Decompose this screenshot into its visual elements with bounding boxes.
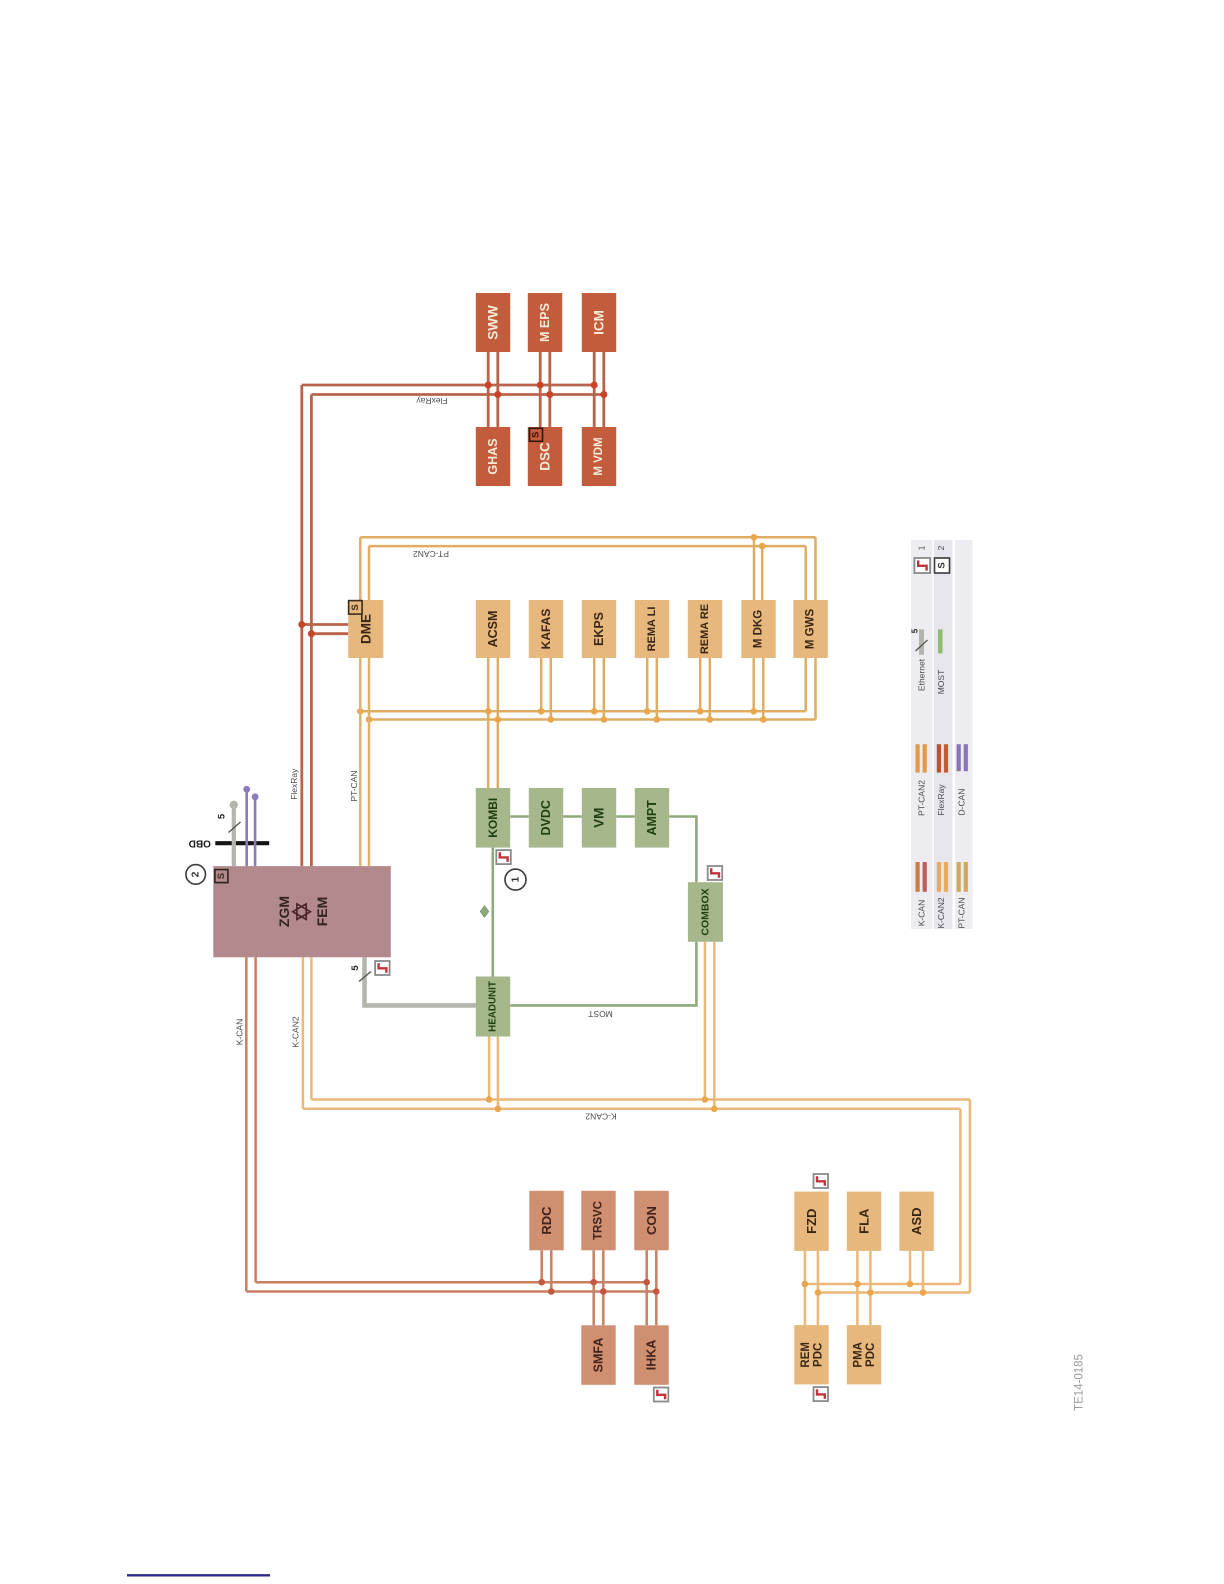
ECU box HEADUNIT <box>476 977 510 1037</box>
junction PT-CAN2 junction REMA LI 1 <box>644 708 651 715</box>
svg-text:KAFAS: KAFAS <box>539 609 553 650</box>
svg-text:1: 1 <box>510 877 522 883</box>
junction PT-CAN2 junction ACSM 2 <box>495 716 502 723</box>
svg-text:VM: VM <box>592 808 607 828</box>
ECU box M GWS <box>793 600 827 658</box>
legend PT-CAN2 sample bars <box>916 744 920 772</box>
OBD diagnostic connector bar <box>215 841 269 845</box>
wire FlexRay bus wire 2 (lower) <box>311 393 603 396</box>
wire MOST VM-AMPT link <box>616 815 635 818</box>
wire ACSM through-wire to KOMBI 1 <box>487 658 490 788</box>
MOST direction arrow <box>480 906 488 917</box>
svg-text:AMPT: AMPT <box>645 800 659 836</box>
wire K-CAN trunk vertical 2 <box>254 957 257 1282</box>
junction PT-CAN2 junction M DKG 1 <box>750 708 757 715</box>
wire K-CAN2 FZD drop 2 <box>817 1251 820 1325</box>
wire K-CAN2 right riser outer <box>969 1100 972 1293</box>
wire K-CAN2 bus wire upper <box>311 1098 970 1101</box>
svg-text:M GWS: M GWS <box>805 609 817 650</box>
svg-text:PT-CAN: PT-CAN <box>957 897 967 928</box>
wire PT-CAN2 EKPS bottom drop 2 <box>603 658 606 720</box>
junction K-CAN2 junction COMBOX 2 <box>711 1106 718 1113</box>
junction K-CAN2 junction ASD 1 <box>907 1281 914 1288</box>
wire HEADUNIT K-CAN2 drop 1 <box>488 1037 491 1100</box>
svg-text:TE14-0185: TE14-0185 <box>1074 1354 1086 1411</box>
wire PT-CAN2 bottom bus wire 1 <box>360 710 805 713</box>
optical-fibre icon at KOMBI bottom <box>496 850 511 864</box>
junction PT-CAN2 junction ACSM 1 <box>485 708 492 715</box>
junction FlexRay junction upper x=488 <box>485 382 492 389</box>
svg-text:PT-CAN2: PT-CAN2 <box>413 549 449 559</box>
wire PT-CAN2 REMA RE bottom drop 1 <box>699 658 702 711</box>
wire FlexRay trunk left inner vertical <box>310 395 313 867</box>
svg-text:K-CAN: K-CAN <box>917 900 927 926</box>
svg-text:RDC: RDC <box>539 1206 554 1235</box>
wire FlexRay trunk left outer vertical <box>300 385 303 866</box>
legend K-CAN2 sample bars <box>937 862 941 892</box>
wire FlexRay drop left x=540 <box>539 352 542 427</box>
wire PT-CAN2 M DKG top drop 1 <box>753 537 756 600</box>
D-CAN stub wire 1 <box>245 790 248 866</box>
optical-fibre icon at IHKA bottom <box>654 1388 669 1402</box>
svg-text:ZGM: ZGM <box>276 896 292 927</box>
wire PT-CAN2 bottom bus wire 2 <box>369 718 816 721</box>
svg-text:GHAS: GHAS <box>486 438 500 474</box>
wire MOST KOMBI-DVDC link <box>510 815 529 818</box>
circled number 2 at ZGM <box>186 865 206 885</box>
wire PT-CAN2 left corner vertical 1 (into DME) <box>359 537 362 600</box>
ECU box REM PDC <box>794 1325 828 1384</box>
svg-text:FlexRay: FlexRay <box>416 396 448 406</box>
wire FlexRay drop right x=498 <box>496 352 499 427</box>
svg-text:1: 1 <box>917 545 927 550</box>
wire K-CAN2 FLA drop 2 <box>869 1251 872 1325</box>
svg-text:MOST: MOST <box>936 670 946 695</box>
svg-text:REMPDC: REMPDC <box>800 1342 825 1368</box>
wire MOST KOMBI-HEADUNIT link <box>491 848 494 977</box>
wire PT-CAN2 REMA LI bottom drop 2 <box>656 658 659 720</box>
svg-text:COMBOX: COMBOX <box>699 888 711 935</box>
svg-text:D-CAN: D-CAN <box>957 789 967 816</box>
junction K-CAN junction CON 2 <box>653 1288 660 1295</box>
svg-text:SWW: SWW <box>486 305 501 340</box>
svg-text:IHKA: IHKA <box>645 1340 659 1371</box>
junction K-CAN2 junction COMBOX 1 <box>702 1096 709 1103</box>
wire ACSM through-wire to KOMBI 2 <box>497 658 500 788</box>
junction K-CAN2 junction ASD 2 <box>920 1289 927 1296</box>
junction PT-CAN2 junction KAFAS 1 <box>538 708 545 715</box>
svg-text:K-CAN: K-CAN <box>235 1019 245 1045</box>
ECU box CON <box>634 1191 668 1251</box>
wire PT-CAN DME-to-ZGM wire 2 <box>368 658 371 866</box>
ECU box DVDC <box>529 788 563 848</box>
ECU box COMBOX <box>688 882 723 942</box>
junction FlexRay junction upper x=540 <box>537 382 544 389</box>
svg-text:FLA: FLA <box>857 1208 872 1234</box>
wire PT-CAN2 left corner vertical 2 (into DME) <box>368 546 371 600</box>
wire PT-CAN2 right corner vertical 2 (into M GWS) <box>804 546 807 600</box>
S-gateway icon legend S <box>935 558 950 573</box>
junction FlexRay junction at DME stub 1 <box>298 621 305 628</box>
svg-text:2: 2 <box>190 871 202 877</box>
junction PT-CAN2 junction REMA RE 1 <box>697 708 704 715</box>
ECU box ASD <box>899 1192 933 1251</box>
junction K-CAN2 junction FLA 1 <box>854 1281 861 1288</box>
ECU box FZD <box>794 1192 828 1251</box>
ECU box EKPS <box>582 600 616 658</box>
wire K-CAN2 trunk vertical 1 (from ZGM) <box>302 957 305 1109</box>
junction K-CAN2 junction FZD 1 <box>802 1281 809 1288</box>
svg-text:PMAPDC: PMAPDC <box>853 1342 878 1368</box>
svg-text:5: 5 <box>350 965 361 971</box>
junction FlexRay junction upper x=594 <box>591 382 598 389</box>
wire FlexRay stub to DME wire 1 <box>302 623 349 626</box>
junction PT-CAN2 tee into PT-CAN wire 2 <box>366 716 373 723</box>
wire K-CAN2 lower bus wire upper <box>805 1283 961 1286</box>
legend PT-CAN sample bars <box>957 862 961 892</box>
wire PT-CAN2 right corner vertical 1 (into M GWS) <box>814 537 817 600</box>
junction K-CAN junction RDC 1 <box>538 1279 545 1286</box>
junction K-CAN junction RDC 2 <box>548 1288 555 1295</box>
wire COMBOX K-CAN2 drop 2 <box>713 942 716 1109</box>
ECU box SWW <box>476 293 510 352</box>
wire K-CAN2 ASD drop 1 <box>909 1251 912 1284</box>
svg-text:DVDC: DVDC <box>539 800 553 835</box>
svg-text:FZD: FZD <box>804 1209 819 1234</box>
ECU box M EPS <box>528 293 562 352</box>
wire K-CAN RDC drop 2 <box>550 1250 553 1291</box>
wire PT-CAN2 EKPS bottom drop 1 <box>593 658 596 711</box>
svg-text:M EPS: M EPS <box>538 303 552 342</box>
svg-text:REMA LI: REMA LI <box>646 607 658 652</box>
wire MOST DVDC-VM link <box>563 815 582 818</box>
svg-text:DSC: DSC <box>538 442 553 471</box>
svg-text:Ethernet: Ethernet <box>917 658 927 691</box>
wire PT-CAN2 KAFAS bottom drop 1 <box>540 658 543 711</box>
legend D-CAN sample bars <box>957 744 961 771</box>
wire FlexRay stub to DME wire 2 <box>311 632 348 635</box>
svg-text:S: S <box>350 604 361 610</box>
legend background strip 1 <box>911 540 933 929</box>
count slash on Ethernet ZGM-HEADUNIT <box>359 972 371 982</box>
ECU box SMFA <box>581 1325 615 1385</box>
svg-text:FlexRay: FlexRay <box>936 784 946 816</box>
legend Ethernet sample <box>919 629 924 655</box>
svg-text:K-CAN2: K-CAN2 <box>585 1112 616 1122</box>
junction K-CAN2 junction FLA 2 <box>867 1289 874 1296</box>
wire K-CAN2 FZD drop 1 <box>804 1251 807 1325</box>
legend MOST sample <box>938 629 943 653</box>
ECU box ZGM/FEM central gateway <box>213 866 390 957</box>
junction K-CAN2 junction HEADUNIT 2 <box>495 1106 502 1113</box>
junction K-CAN junction TRSVC 1 <box>590 1279 597 1286</box>
svg-text:ICM: ICM <box>592 310 607 335</box>
svg-text:ASD: ASD <box>909 1207 924 1234</box>
legend background strip 3 <box>955 540 973 929</box>
count slash on Ethernet stub <box>229 822 241 833</box>
ECU box FLA <box>847 1192 881 1251</box>
legend FlexRay sample bars <box>937 744 941 772</box>
wire K-CAN2 ASD drop 2 <box>922 1251 925 1293</box>
wire PT-CAN2 M GWS bottom corner 2 <box>814 658 817 720</box>
S-gateway icon on DSC <box>530 428 543 441</box>
wire K-CAN RDC drop 1 <box>540 1250 543 1282</box>
wire MOST AMPT-COMBOX link <box>669 817 696 883</box>
ECU box ICM <box>582 293 616 352</box>
wire K-CAN TRSVC drop 2 <box>602 1250 605 1325</box>
junction FlexRay junction lower x=550 <box>546 391 553 398</box>
svg-text:S: S <box>937 562 948 568</box>
wire K-CAN TRSVC drop 1 <box>592 1250 595 1325</box>
junction PT-CAN2 junction M DKG top 2 <box>759 543 766 550</box>
svg-text:KOMBI: KOMBI <box>486 798 500 838</box>
wire K-CAN CON drop 1 <box>645 1250 648 1325</box>
svg-text:FEM: FEM <box>314 897 330 927</box>
wire FlexRay drop right x=550 <box>548 352 551 427</box>
wire FlexRay drop right x=604 <box>602 352 605 427</box>
wire PT-CAN2 REMA LI bottom drop 1 <box>646 658 649 711</box>
ECU box TRSVC <box>581 1191 615 1251</box>
optical-fibre icon at REM PDC bottom <box>814 1387 829 1401</box>
svg-text:M VDM: M VDM <box>593 437 605 475</box>
junction FlexRay junction at DME stub 2 <box>308 630 315 637</box>
svg-text:OBD: OBD <box>189 838 211 849</box>
wire FlexRay drop left x=488 <box>487 352 490 427</box>
junction PT-CAN2 junction EKPS 2 <box>601 716 608 723</box>
svg-text:DME: DME <box>358 614 373 644</box>
svg-text:HEADUNIT: HEADUNIT <box>488 981 499 1032</box>
wire PT-CAN2 top bus wire 2 <box>369 545 806 548</box>
junction PT-CAN2 junction KAFAS 2 <box>548 716 555 723</box>
ECU box DSC <box>528 427 562 486</box>
wire MOST COMBOX-HEADUNIT return <box>510 942 696 1006</box>
svg-text:S: S <box>531 432 542 438</box>
wire PT-CAN2 M DKG bottom drop 1 <box>752 658 755 711</box>
wire K-CAN trunk vertical 1 <box>245 957 248 1291</box>
wire PT-CAN DME-to-ZGM wire 1 <box>359 658 362 866</box>
wire COMBOX K-CAN2 drop 1 <box>704 942 707 1100</box>
wire K-CAN CON drop 2 <box>655 1250 658 1325</box>
Ethernet wire ZGM to HEADUNIT <box>365 957 476 1005</box>
ECU box ACSM <box>476 600 510 658</box>
ECU box IHKA <box>634 1325 668 1385</box>
wire PT-CAN2 REMA RE bottom drop 2 <box>709 658 712 720</box>
svg-text:EKPS: EKPS <box>592 612 606 646</box>
junction K-CAN junction TRSVC 2 <box>600 1288 607 1295</box>
ECU box M VDM <box>582 427 616 486</box>
ECU box KAFAS <box>529 600 563 658</box>
svg-text:2: 2 <box>936 545 946 550</box>
wire K-CAN2 lower bus wire lower <box>818 1291 970 1294</box>
svg-text:5: 5 <box>911 628 920 633</box>
footer rule <box>127 1574 270 1576</box>
junction FlexRay junction lower x=604 <box>600 391 607 398</box>
svg-text:5: 5 <box>217 813 228 819</box>
svg-text:ACSM: ACSM <box>486 611 500 648</box>
D-CAN stub wire 2 <box>254 798 257 867</box>
wire FlexRay drop left x=594 <box>593 352 596 427</box>
wire PT-CAN2 KAFAS bottom drop 2 <box>550 658 553 720</box>
wire K-CAN bus wire lower <box>246 1290 656 1293</box>
svg-text:K-CAN2: K-CAN2 <box>936 897 946 928</box>
svg-text:PT-CAN: PT-CAN <box>349 770 359 801</box>
ECU box PMA PDC <box>847 1325 881 1384</box>
junction K-CAN junction CON 1 <box>643 1279 650 1286</box>
ECU box AMPT <box>635 788 669 848</box>
svg-text:MOST: MOST <box>588 1009 613 1019</box>
wire PT-CAN2 top bus wire 1 <box>360 536 815 539</box>
wire K-CAN2 right riser inner <box>959 1109 962 1284</box>
ECU box REMA RE <box>688 600 722 658</box>
star separator glyph between ZGM and FEM <box>293 904 311 920</box>
ECU box REMA LI <box>635 600 669 658</box>
ECU box KOMBI <box>476 788 510 848</box>
S-gateway icon on ZGM <box>215 870 228 883</box>
wire PT-CAN2 M DKG top drop 2 <box>761 546 764 600</box>
legend K-CAN sample bars <box>916 862 920 892</box>
circled number 1 at KOMBI <box>505 869 526 890</box>
svg-text:M DKG: M DKG <box>753 610 765 648</box>
wire PT-CAN2 M DKG bottom drop 2 <box>762 658 765 720</box>
Ethernet stub at ZGM top <box>232 806 236 866</box>
junction FlexRay junction lower x=498 <box>494 391 501 398</box>
junction K-CAN2 junction HEADUNIT 1 <box>486 1096 493 1103</box>
svg-text:K-CAN2: K-CAN2 <box>291 1016 301 1047</box>
optical-fibre icon legend optical-fibre <box>914 558 930 573</box>
junction PT-CAN2 junction EKPS 1 <box>591 708 598 715</box>
junction PT-CAN2 tee into PT-CAN wire 1 <box>357 708 364 715</box>
wire K-CAN2 FLA drop 1 <box>856 1251 859 1325</box>
svg-text:CON: CON <box>644 1206 659 1235</box>
wire K-CAN2 trunk vertical 2 (from ZGM) <box>310 957 313 1099</box>
legend background strip 2 <box>934 540 953 929</box>
svg-text:PT-CAN2: PT-CAN2 <box>917 780 927 816</box>
ECU box M DKG <box>741 600 775 658</box>
wire K-CAN bus wire upper <box>256 1281 647 1284</box>
S-gateway icon on DME <box>349 601 363 615</box>
svg-text:TRSVC: TRSVC <box>593 1201 605 1240</box>
wire K-CAN2 bus wire lower <box>303 1108 961 1111</box>
junction PT-CAN2 junction REMA LI 2 <box>654 716 661 723</box>
junction PT-CAN2 junction M DKG top 1 <box>751 534 758 541</box>
optical-fibre icon at COMBOX top <box>708 866 723 880</box>
ECU box GHAS <box>476 427 510 486</box>
ECU box DME <box>348 600 383 658</box>
svg-text:SMFA: SMFA <box>592 1338 606 1373</box>
svg-text:S: S <box>216 873 227 879</box>
junction PT-CAN2 junction REMA RE 2 <box>707 716 714 723</box>
wire PT-CAN2 M GWS bottom corner 1 <box>804 658 807 711</box>
optical-fibre icon at FZD top <box>814 1174 829 1188</box>
junction K-CAN2 junction FZD 2 <box>815 1289 822 1296</box>
wire HEADUNIT K-CAN2 drop 2 <box>497 1037 500 1109</box>
ECU box RDC <box>529 1191 563 1251</box>
wire FlexRay bus wire 1 (upper) <box>302 384 594 387</box>
junction PT-CAN2 junction M DKG 2 <box>760 716 767 723</box>
svg-text:REMA RE: REMA RE <box>699 604 711 654</box>
ECU box VM <box>582 788 616 848</box>
optical-fibre icon at ZGM bottom <box>375 961 390 975</box>
svg-text:FlexRay: FlexRay <box>289 768 299 800</box>
